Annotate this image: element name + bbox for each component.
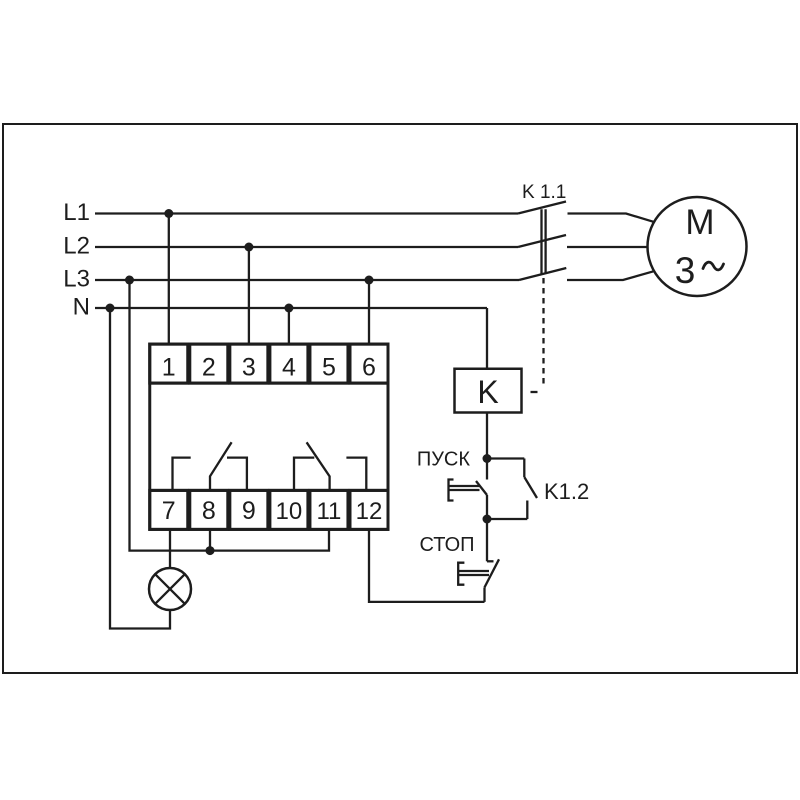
wire L3 to terminal 6 xyxy=(368,280,370,344)
coil K xyxy=(455,369,522,413)
terminal 12 xyxy=(350,490,388,529)
svg-text:9: 9 xyxy=(242,497,256,525)
terminal 9 xyxy=(230,490,268,529)
terminal 3 xyxy=(230,344,268,383)
motor M 3~ xyxy=(648,197,747,296)
svg-text:3: 3 xyxy=(242,354,256,382)
terminal 1 xyxy=(150,344,188,383)
wire L1 bus xyxy=(95,212,518,214)
svg-text:СТОП: СТОП xyxy=(419,534,474,556)
contactor K1.1 pole 2 blade xyxy=(518,235,566,247)
wire pole 2 to motor xyxy=(567,246,648,248)
svg-text:K 1.1: K 1.1 xyxy=(522,182,566,203)
wire N bus xyxy=(95,307,487,309)
wire L1 to terminal 1 xyxy=(168,214,170,345)
junction L2 to terminal 3 xyxy=(244,243,253,252)
wire L2 bus xyxy=(95,246,518,248)
junction N to terminal 4 xyxy=(284,304,293,313)
svg-text:L1: L1 xyxy=(63,199,90,226)
svg-text:ПУСК: ПУСК xyxy=(417,449,471,471)
relay contact stub terminal 7 xyxy=(173,458,191,491)
relay contact blade terminal 11 xyxy=(307,442,330,490)
relay contact blade terminal 8 xyxy=(210,442,232,490)
svg-text:10: 10 xyxy=(276,498,303,525)
terminal 2 xyxy=(190,344,228,383)
wire N to terminal 4 xyxy=(288,308,290,344)
junction N to lamp branch xyxy=(106,304,115,313)
junction L3 to relay common branch xyxy=(125,276,134,285)
svg-text:L3: L3 xyxy=(63,266,90,293)
terminal row 7-12 top rule xyxy=(150,489,388,492)
terminal 7 xyxy=(150,490,188,529)
junction start button bottom xyxy=(483,515,492,524)
terminal 8 xyxy=(190,490,228,529)
junction start button top xyxy=(483,454,492,463)
junction L1 to terminal 1 xyxy=(164,209,173,218)
relay contact stub terminal 10 xyxy=(294,458,314,491)
terminal 10 xyxy=(270,490,308,529)
auxiliary contact K1.2 xyxy=(487,459,537,520)
relay device body xyxy=(150,344,388,529)
contactor K1.1 linkage double bar xyxy=(542,209,546,273)
wire L3 branch to terminals 8 and 11 xyxy=(130,280,330,551)
svg-text:7: 7 xyxy=(162,497,176,525)
junction L3 to terminal 6 xyxy=(365,276,374,285)
svg-text:3: 3 xyxy=(675,250,696,291)
svg-text:11: 11 xyxy=(316,498,341,525)
svg-text:8: 8 xyxy=(202,497,216,525)
lamp HL xyxy=(149,568,191,610)
svg-text:K1.2: K1.2 xyxy=(544,479,589,504)
terminal row 1-6 bottom rule xyxy=(150,382,388,385)
terminal 4 xyxy=(270,344,308,383)
terminal 6 xyxy=(350,344,388,383)
svg-text:5: 5 xyxy=(322,354,336,382)
wire N to coil K xyxy=(486,308,488,369)
svg-text:1: 1 xyxy=(162,354,176,382)
svg-text:N: N xyxy=(73,294,90,321)
relay contact stub terminal 12 xyxy=(346,458,366,491)
wire terminal 7 to lamp xyxy=(169,529,171,568)
svg-text:12: 12 xyxy=(356,498,383,525)
terminal 5 xyxy=(310,344,348,383)
svg-text:6: 6 xyxy=(362,354,376,382)
stop button STOP xyxy=(458,519,499,602)
contactor K1.1 pole 3 blade xyxy=(519,268,566,280)
linkage dashed line to coil K xyxy=(531,278,544,392)
terminal 11 xyxy=(310,490,348,529)
wire stop button to terminal 12 xyxy=(369,529,485,602)
svg-text:M: M xyxy=(685,203,714,242)
contactor K1.1 pole 1 blade xyxy=(518,202,566,214)
svg-text:2: 2 xyxy=(202,354,216,382)
svg-text:L2: L2 xyxy=(63,233,90,260)
wire L2 to terminal 3 xyxy=(248,247,250,344)
wire lamp to N branch xyxy=(110,308,170,629)
relay contact stub terminal 9 xyxy=(227,458,247,491)
junction terminal 8 branch xyxy=(206,546,215,555)
start button PUSK xyxy=(449,459,488,520)
svg-text:K: K xyxy=(477,374,498,410)
wire terminal 8 down xyxy=(209,529,211,550)
svg-text:4: 4 xyxy=(282,354,296,382)
wire L3 bus xyxy=(95,279,519,281)
wire pole 3 to motor xyxy=(567,271,654,280)
wire coil K to start button xyxy=(486,413,488,459)
wire pole 1 to motor xyxy=(568,214,654,222)
